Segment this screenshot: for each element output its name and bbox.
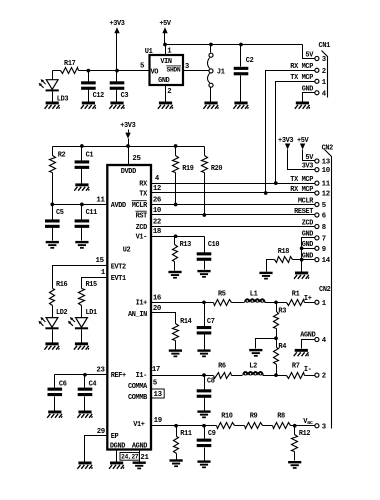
- svg-text:GND: GND: [302, 86, 314, 94]
- svg-text:R18: R18: [278, 248, 289, 256]
- svg-text:V1+: V1+: [133, 421, 145, 429]
- svg-text:C12: C12: [93, 92, 104, 100]
- svg-text:5: 5: [322, 202, 326, 210]
- svg-text:AGND: AGND: [132, 443, 148, 451]
- svg-text:EP: EP: [111, 433, 120, 441]
- svg-text:10: 10: [153, 207, 161, 215]
- svg-text:8: 8: [322, 224, 326, 232]
- svg-text:CN2: CN2: [319, 286, 330, 294]
- svg-text:R12: R12: [299, 430, 310, 438]
- svg-text:R16: R16: [56, 281, 67, 289]
- svg-text:TX MCP: TX MCP: [290, 176, 314, 184]
- svg-text:L2: L2: [249, 363, 257, 371]
- svg-text:11: 11: [322, 181, 331, 189]
- svg-text:R11: R11: [180, 430, 192, 438]
- svg-text:R15: R15: [86, 281, 97, 289]
- svg-text:ZCD: ZCD: [136, 224, 148, 232]
- svg-text:GND: GND: [302, 241, 314, 249]
- svg-text:CN1: CN1: [319, 42, 331, 50]
- svg-text:U2: U2: [123, 247, 131, 255]
- svg-text:I1+: I1+: [136, 300, 148, 308]
- svg-text:12: 12: [153, 185, 161, 193]
- svg-text:2: 2: [322, 68, 326, 76]
- svg-text:C7: C7: [207, 318, 215, 326]
- svg-text:GND: GND: [158, 77, 170, 85]
- svg-text:R17: R17: [64, 60, 75, 68]
- svg-text:11: 11: [96, 197, 105, 205]
- svg-text:R14: R14: [180, 318, 192, 326]
- svg-text:C6: C6: [59, 381, 67, 389]
- svg-text:+5V: +5V: [159, 20, 171, 28]
- svg-text:R19: R19: [182, 165, 193, 173]
- svg-text:SHDN: SHDN: [167, 67, 181, 74]
- svg-text:R4: R4: [278, 343, 287, 351]
- svg-text:19: 19: [154, 417, 162, 425]
- svg-text:I1-: I1-: [136, 372, 147, 380]
- svg-text:R1: R1: [292, 291, 301, 299]
- svg-text:ZCD: ZCD: [302, 219, 314, 227]
- svg-text:R3: R3: [278, 308, 287, 316]
- svg-text:RX: RX: [139, 181, 148, 189]
- svg-text:13: 13: [322, 159, 331, 167]
- svg-text:DGND: DGND: [110, 443, 126, 451]
- svg-text:23: 23: [96, 367, 105, 375]
- svg-text:+3V3: +3V3: [109, 20, 125, 28]
- svg-text:29: 29: [97, 428, 105, 436]
- svg-text:C5: C5: [56, 209, 64, 217]
- svg-text:VIN: VIN: [160, 58, 171, 66]
- svg-text:C2: C2: [246, 57, 254, 65]
- svg-text:18: 18: [153, 228, 161, 236]
- svg-text:VO: VO: [151, 69, 160, 77]
- svg-text:Vac: Vac: [303, 418, 313, 426]
- svg-text:R13: R13: [180, 241, 192, 249]
- svg-text:LD2: LD2: [56, 309, 67, 317]
- svg-text:10: 10: [322, 167, 330, 175]
- svg-text:RX MCP: RX MCP: [290, 63, 314, 71]
- svg-text:CN2: CN2: [322, 145, 333, 153]
- svg-text:LD3: LD3: [57, 96, 69, 104]
- svg-text:TX MCP: TX MCP: [290, 74, 314, 82]
- svg-text:C9: C9: [208, 430, 216, 438]
- svg-text:EVT1: EVT1: [111, 275, 127, 283]
- svg-text:R8: R8: [277, 413, 285, 421]
- svg-text:MCLR: MCLR: [298, 197, 314, 205]
- svg-text:7: 7: [322, 236, 326, 244]
- svg-text:AN_IN: AN_IN: [128, 311, 147, 319]
- svg-text:RX MCP: RX MCP: [290, 186, 314, 194]
- svg-text:MCLR: MCLR: [132, 202, 148, 210]
- svg-text:COMMB: COMMB: [128, 394, 148, 402]
- svg-text:RESET: RESET: [294, 208, 314, 216]
- svg-text:9: 9: [322, 246, 326, 254]
- svg-text:+3V3: +3V3: [120, 122, 136, 130]
- svg-text:15: 15: [96, 257, 104, 265]
- svg-text:5: 5: [153, 379, 157, 387]
- svg-text:3V3: 3V3: [302, 162, 314, 170]
- svg-text:DVDD: DVDD: [121, 168, 137, 176]
- svg-text:R2: R2: [58, 151, 66, 159]
- svg-text:C11: C11: [86, 209, 98, 217]
- svg-text:AVDD: AVDD: [111, 202, 127, 210]
- svg-text:C8: C8: [207, 377, 215, 385]
- svg-text:C4: C4: [89, 381, 98, 389]
- svg-text:5V: 5V: [305, 154, 314, 162]
- svg-text:I+: I+: [304, 295, 313, 303]
- svg-text:C3: C3: [121, 92, 130, 100]
- svg-text:REF+: REF+: [111, 372, 127, 380]
- svg-text:20: 20: [153, 305, 161, 313]
- svg-text:C1: C1: [86, 151, 95, 159]
- svg-text:COMMA: COMMA: [128, 383, 148, 391]
- svg-text:RST: RST: [136, 212, 148, 220]
- svg-text:17: 17: [152, 366, 160, 374]
- svg-text:5V: 5V: [305, 52, 314, 60]
- svg-text:21: 21: [140, 454, 149, 462]
- svg-text:L1: L1: [250, 291, 259, 299]
- svg-text:R10: R10: [221, 413, 232, 421]
- svg-text:I-: I-: [304, 366, 312, 374]
- svg-text:14: 14: [322, 257, 331, 265]
- svg-text:AGND: AGND: [300, 331, 316, 339]
- svg-text:2: 2: [167, 88, 171, 96]
- svg-text:U1: U1: [145, 48, 154, 56]
- svg-text:R6: R6: [218, 363, 226, 371]
- svg-text:13: 13: [154, 391, 163, 399]
- svg-text:R7: R7: [292, 363, 300, 371]
- svg-text:V1-: V1-: [136, 234, 147, 242]
- svg-text:J1: J1: [217, 69, 226, 77]
- svg-text:26: 26: [153, 196, 161, 204]
- svg-text:6: 6: [322, 213, 326, 221]
- svg-text:25: 25: [132, 155, 140, 163]
- svg-text:16: 16: [153, 295, 161, 303]
- svg-text:TX: TX: [139, 190, 148, 198]
- svg-text:R5: R5: [218, 291, 226, 299]
- svg-text:EVT2: EVT2: [111, 264, 126, 272]
- svg-text:22: 22: [153, 218, 161, 226]
- svg-text:R20: R20: [211, 165, 222, 173]
- svg-text:LD1: LD1: [86, 309, 98, 317]
- svg-text:5: 5: [140, 63, 144, 71]
- svg-text:12: 12: [322, 191, 330, 199]
- svg-text:2: 2: [322, 373, 326, 381]
- svg-text:24,27: 24,27: [121, 454, 139, 461]
- svg-text:C10: C10: [208, 241, 219, 249]
- svg-text:R9: R9: [250, 413, 258, 421]
